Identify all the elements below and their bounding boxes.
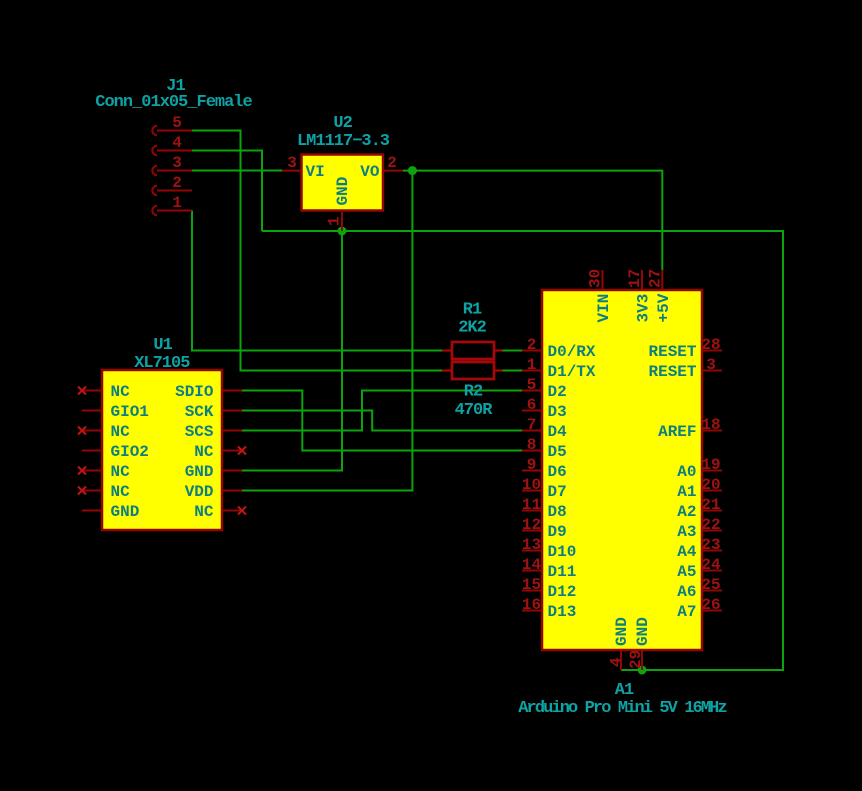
svg-text:3: 3 bbox=[172, 154, 182, 172]
svg-text:D6: D6 bbox=[548, 463, 567, 481]
svg-text:XL7105: XL7105 bbox=[134, 354, 190, 373]
svg-text:2K2: 2K2 bbox=[458, 319, 486, 338]
svg-text:NC: NC bbox=[194, 443, 214, 461]
svg-text:1: 1 bbox=[326, 216, 344, 226]
svg-text:470R: 470R bbox=[455, 401, 494, 420]
wire VO branch to U1 VDD bbox=[242, 171, 412, 491]
svg-text:GND: GND bbox=[634, 617, 652, 646]
A1 left pin 14 D11 bbox=[522, 556, 576, 581]
svg-text:D11: D11 bbox=[548, 563, 577, 581]
svg-text:D10: D10 bbox=[548, 543, 577, 561]
svg-text:28: 28 bbox=[701, 336, 720, 354]
A1 right pin 28 RESET bbox=[648, 336, 722, 361]
svg-text:D7: D7 bbox=[548, 483, 567, 501]
IC U1 body bbox=[102, 370, 222, 530]
svg-text:9: 9 bbox=[527, 456, 537, 474]
A1 left pin 12 D9 bbox=[522, 516, 567, 541]
svg-text:4: 4 bbox=[172, 134, 182, 152]
A1 top pin 17 3V3 bbox=[626, 269, 653, 323]
U1 left pin GND bbox=[82, 503, 139, 521]
U1 right pin GND bbox=[185, 463, 242, 481]
A1 bottom pin 4 GND bbox=[608, 617, 632, 670]
wire U2 GND to U1 GND bbox=[242, 231, 342, 471]
svg-text:3: 3 bbox=[706, 356, 716, 374]
wire U1 SCS to A1 D2 bbox=[242, 391, 522, 431]
svg-text:12: 12 bbox=[522, 516, 541, 534]
svg-text:10: 10 bbox=[522, 476, 541, 494]
A1 right pin 18 AREF bbox=[658, 416, 722, 441]
svg-text:5: 5 bbox=[527, 376, 537, 394]
A1 left pin 13 D10 bbox=[522, 536, 576, 561]
svg-text:VIN: VIN bbox=[595, 294, 613, 323]
A1 right pin 3 RESET bbox=[648, 356, 722, 381]
svg-text:Arduino Pro Mini 5V 16MHz: Arduino Pro Mini 5V 16MHz bbox=[518, 699, 726, 718]
A1 right pin 23 A4 bbox=[677, 536, 722, 561]
A1 left pin 6 D3 bbox=[522, 396, 567, 421]
svg-text:13: 13 bbox=[522, 536, 541, 554]
svg-text:NC: NC bbox=[194, 503, 214, 521]
svg-text:1: 1 bbox=[172, 194, 182, 212]
svg-text:D0/RX: D0/RX bbox=[548, 343, 596, 361]
wire R1 right to A1 D0/RX bbox=[503, 350, 523, 352]
svg-text:SCK: SCK bbox=[185, 403, 214, 421]
svg-text:23: 23 bbox=[701, 536, 720, 554]
svg-text:D13: D13 bbox=[548, 603, 577, 621]
svg-text:27: 27 bbox=[646, 269, 664, 288]
svg-text:GND: GND bbox=[334, 177, 352, 206]
wire R2 right to A1 D1/TX bbox=[503, 370, 523, 372]
svg-text:8: 8 bbox=[527, 436, 537, 454]
connector J1 pin 5 bbox=[152, 114, 192, 135]
svg-text:24: 24 bbox=[701, 556, 721, 574]
svg-text:4: 4 bbox=[608, 657, 626, 667]
U1 right pin SCS bbox=[185, 423, 242, 441]
svg-text:D3: D3 bbox=[548, 403, 567, 421]
U1 left pin NC bbox=[78, 423, 130, 441]
A1 left pin 2 D0/RX bbox=[522, 336, 596, 361]
svg-text:U1: U1 bbox=[153, 336, 172, 355]
svg-text:18: 18 bbox=[701, 416, 720, 434]
A1 bottom pin 29 GND bbox=[627, 617, 652, 670]
U1 left pin GIO2 bbox=[82, 443, 149, 461]
A1 left pin 7 D4 bbox=[522, 416, 567, 441]
U1 left pin GIO1 bbox=[82, 403, 149, 421]
svg-text:NC: NC bbox=[111, 423, 131, 441]
svg-text:D4: D4 bbox=[548, 423, 568, 441]
A1 right pin 26 A7 bbox=[677, 596, 722, 621]
svg-text:30: 30 bbox=[587, 269, 605, 288]
A1 left pin 10 D7 bbox=[522, 476, 567, 501]
A1 left pin 5 D2 bbox=[522, 376, 567, 401]
svg-text:D12: D12 bbox=[548, 583, 577, 601]
connector J1 pin 4 bbox=[152, 134, 192, 155]
resistor R2 bbox=[442, 362, 503, 379]
svg-text:SDIO: SDIO bbox=[175, 383, 214, 401]
A1 left pin 11 D8 bbox=[522, 496, 567, 521]
svg-text:17: 17 bbox=[626, 269, 644, 288]
junction GND node at A1 bbox=[638, 666, 647, 675]
A1 top pin 27 +5V bbox=[646, 269, 673, 323]
U1 right pin NC bbox=[194, 443, 246, 461]
wire J1 pin1 to R1 left bbox=[192, 211, 442, 351]
svg-text:+5V: +5V bbox=[655, 293, 673, 322]
svg-text:VO: VO bbox=[360, 163, 380, 181]
svg-text:A1: A1 bbox=[615, 681, 634, 700]
svg-text:GND: GND bbox=[613, 617, 631, 646]
svg-text:D8: D8 bbox=[548, 503, 567, 521]
connector J1 pin 2 bbox=[152, 174, 192, 195]
svg-text:VI: VI bbox=[306, 163, 325, 181]
resistor R1 bbox=[442, 342, 503, 359]
A1 right pin 21 A2 bbox=[677, 496, 722, 521]
A1 right pin 25 A6 bbox=[677, 576, 722, 601]
wire U1 SDIO to A1 D5 bbox=[242, 391, 522, 451]
svg-text:D2: D2 bbox=[548, 383, 567, 401]
svg-text:D1/TX: D1/TX bbox=[548, 363, 596, 381]
A1 right pin 19 A0 bbox=[677, 456, 722, 481]
A1 left pin 9 D6 bbox=[522, 456, 567, 481]
U2 pin 3 VI bbox=[282, 154, 325, 181]
svg-text:NC: NC bbox=[111, 463, 131, 481]
svg-text:A2: A2 bbox=[677, 503, 696, 521]
junction GND node at U2 bbox=[338, 227, 347, 236]
wire U1 SCK to A1 D4 bbox=[242, 411, 522, 431]
wire J1 pin4 to GND rail bbox=[192, 151, 262, 232]
svg-text:22: 22 bbox=[701, 516, 720, 534]
svg-text:Conn_01x05_Female: Conn_01x05_Female bbox=[95, 93, 252, 112]
svg-text:29: 29 bbox=[627, 650, 645, 669]
svg-text:A5: A5 bbox=[677, 563, 696, 581]
wire U2 VO to A1 +5V bbox=[403, 171, 662, 270]
svg-text:11: 11 bbox=[522, 496, 541, 514]
A1 right pin 20 A1 bbox=[677, 476, 722, 501]
svg-text:20: 20 bbox=[701, 476, 720, 494]
svg-text:3: 3 bbox=[287, 154, 297, 172]
svg-text:21: 21 bbox=[701, 496, 720, 514]
A1 right pin 22 A3 bbox=[677, 516, 722, 541]
svg-text:A3: A3 bbox=[677, 523, 696, 541]
svg-text:NC: NC bbox=[111, 483, 131, 501]
svg-text:SCS: SCS bbox=[185, 423, 214, 441]
svg-text:GIO1: GIO1 bbox=[111, 403, 149, 421]
U1 left pin NC bbox=[78, 383, 130, 401]
svg-text:R1: R1 bbox=[463, 301, 482, 320]
wire GND rail bbox=[262, 231, 783, 670]
A1 left pin 16 D13 bbox=[522, 596, 576, 621]
svg-text:A6: A6 bbox=[677, 583, 696, 601]
svg-text:RESET: RESET bbox=[648, 363, 696, 381]
svg-text:D9: D9 bbox=[548, 523, 567, 541]
svg-text:U2: U2 bbox=[333, 114, 352, 133]
svg-text:14: 14 bbox=[522, 556, 542, 574]
wire J1 pin5 to R2 left bbox=[192, 131, 442, 371]
A1 left pin 8 D5 bbox=[522, 436, 567, 461]
svg-text:R2: R2 bbox=[464, 383, 483, 402]
svg-text:AREF: AREF bbox=[658, 423, 696, 441]
A1 top pin 30 VIN bbox=[587, 269, 614, 323]
svg-text:VDD: VDD bbox=[185, 483, 214, 501]
svg-text:A0: A0 bbox=[677, 463, 696, 481]
U1 left pin NC bbox=[78, 483, 130, 501]
svg-text:2: 2 bbox=[527, 336, 537, 354]
svg-text:NC: NC bbox=[111, 383, 131, 401]
regulator U2 body bbox=[302, 155, 384, 211]
svg-text:16: 16 bbox=[522, 596, 541, 614]
module A1 body bbox=[542, 290, 702, 650]
svg-text:D5: D5 bbox=[548, 443, 567, 461]
A1 left pin 1 D1/TX bbox=[522, 356, 596, 381]
svg-text:GIO2: GIO2 bbox=[111, 443, 149, 461]
U1 right pin NC bbox=[194, 503, 246, 521]
U2 pin 1 GND bbox=[326, 177, 353, 231]
svg-text:A4: A4 bbox=[677, 543, 697, 561]
svg-text:7: 7 bbox=[527, 416, 537, 434]
svg-text:3V3: 3V3 bbox=[635, 294, 653, 323]
A1 right pin 24 A5 bbox=[677, 556, 722, 581]
svg-text:5: 5 bbox=[172, 114, 182, 132]
svg-text:GND: GND bbox=[111, 503, 140, 521]
svg-text:26: 26 bbox=[701, 596, 720, 614]
svg-text:2: 2 bbox=[387, 154, 397, 172]
svg-text:RESET: RESET bbox=[648, 343, 696, 361]
svg-text:19: 19 bbox=[701, 456, 720, 474]
connector J1 pin 1 bbox=[152, 194, 192, 215]
junction VO node bbox=[408, 166, 417, 175]
svg-text:25: 25 bbox=[701, 576, 720, 594]
svg-text:1: 1 bbox=[527, 356, 537, 374]
U1 right pin VDD bbox=[185, 483, 242, 501]
svg-text:2: 2 bbox=[172, 174, 182, 192]
svg-text:A7: A7 bbox=[677, 603, 696, 621]
svg-text:GND: GND bbox=[185, 463, 214, 481]
U2 pin 2 VO bbox=[360, 154, 403, 181]
svg-text:6: 6 bbox=[527, 396, 537, 414]
U1 left pin NC bbox=[78, 463, 130, 481]
svg-text:A1: A1 bbox=[677, 483, 696, 501]
svg-text:15: 15 bbox=[522, 576, 541, 594]
connector J1 pin 3 bbox=[152, 154, 192, 175]
wire J1 pin3 to U2 VI bbox=[192, 170, 282, 172]
U1 right pin SDIO bbox=[175, 383, 242, 401]
svg-text:LM1117−3.3: LM1117−3.3 bbox=[297, 132, 390, 151]
A1 left pin 15 D12 bbox=[522, 576, 576, 601]
U1 right pin SCK bbox=[185, 403, 242, 421]
